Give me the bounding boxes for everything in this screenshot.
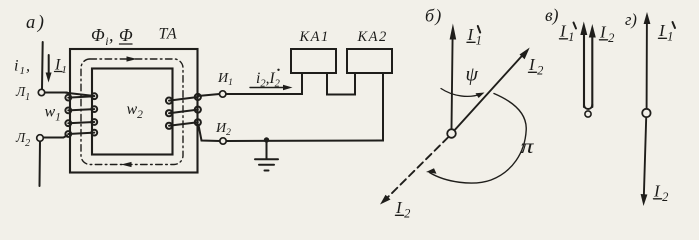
junction ground node — [264, 137, 269, 142]
svg-text:i1,: i1, — [14, 58, 31, 78]
winding w2 — [166, 94, 201, 129]
svg-text:Л1: Л1 — [15, 84, 30, 103]
diagram v hairpin vectors I1' I2 — [580, 22, 596, 110]
label I1' of diagram b — [467, 25, 485, 47]
wire L1 to winding — [45, 92, 67, 94]
wire primary top vertical — [41, 42, 44, 89]
label I2 of diagram v — [599, 23, 617, 45]
svg-text:I2: I2 — [528, 55, 546, 77]
wire L2 to winding — [44, 136, 68, 138]
diagram b origin node — [447, 129, 456, 138]
label I2 of diagram b — [528, 55, 546, 77]
label I1' of diagram v — [559, 22, 577, 44]
svg-text:i2,I2: i2,I2 — [256, 70, 281, 90]
wire primary bottom vertical — [39, 142, 42, 187]
wire KA1 to KA2 link — [327, 73, 355, 95]
svg-text:I2: I2 — [653, 182, 671, 204]
core TA outer — [70, 49, 198, 173]
flux arrow top — [127, 56, 138, 61]
label I1 — [54, 57, 68, 77]
svg-text:КА2: КА2 — [357, 29, 388, 45]
wire KA2 drop to I2 wire — [227, 73, 384, 141]
svg-text:г): г) — [625, 10, 637, 29]
label I2 of diagram g — [653, 182, 671, 204]
relay KA1 — [291, 49, 336, 73]
diagram v origin node — [585, 111, 591, 117]
vector I1' of diagram g — [644, 12, 651, 108]
svg-text:w2: w2 — [127, 101, 144, 121]
svg-text:π: π — [521, 135, 535, 159]
flux arrow bottom — [121, 162, 132, 167]
flux line dash-dot — [81, 59, 183, 165]
svg-text:И2: И2 — [215, 121, 231, 138]
terminal L2 — [37, 135, 44, 142]
ground — [255, 141, 278, 171]
svg-text:И1: И1 — [217, 71, 233, 88]
diagram g origin node — [642, 109, 650, 117]
svg-text:I2: I2 — [395, 198, 413, 220]
svg-text:ψ: ψ — [466, 64, 479, 86]
terminal I1 (И1) — [220, 91, 226, 97]
arrow I1 current direction — [46, 55, 52, 83]
svg-text:б): б) — [425, 6, 442, 27]
wire I1 to KA1 — [226, 73, 302, 94]
label I2 at dashed arrow — [395, 198, 413, 220]
vector I1' of diagram b — [450, 24, 457, 129]
psi arc — [441, 89, 485, 99]
svg-text:а): а) — [26, 13, 46, 33]
vector I2 of diagram g — [641, 118, 648, 206]
relay KA2 — [347, 49, 392, 73]
terminal L1 — [38, 89, 44, 95]
svg-text:Л2: Л2 — [15, 130, 30, 149]
label I1' of diagram g — [658, 21, 676, 43]
svg-text:ТА: ТА — [159, 26, 178, 43]
terminal I2 (И2) — [220, 138, 226, 144]
label Phi_i, Phi — [91, 25, 133, 48]
pi arc — [426, 94, 526, 184]
svg-text:w1: w1 — [45, 104, 61, 124]
dashed vector -I2 of diagram b — [380, 137, 448, 205]
svg-text:I2: I2 — [599, 23, 617, 45]
svg-text:в): в) — [545, 5, 559, 25]
svg-text:КА1: КА1 — [299, 29, 330, 45]
label i2, I2 — [256, 69, 281, 90]
core TA inner — [92, 69, 173, 155]
wire w2 to I2 terminal — [199, 125, 220, 141]
svg-text:I1: I1 — [467, 25, 485, 47]
wire w2 to I1 terminal — [198, 94, 220, 96]
arrow i2 current direction — [250, 85, 293, 90]
svg-text:I1: I1 — [54, 57, 68, 77]
winding w1 — [65, 93, 97, 137]
vector I2 of diagram b — [455, 48, 530, 130]
